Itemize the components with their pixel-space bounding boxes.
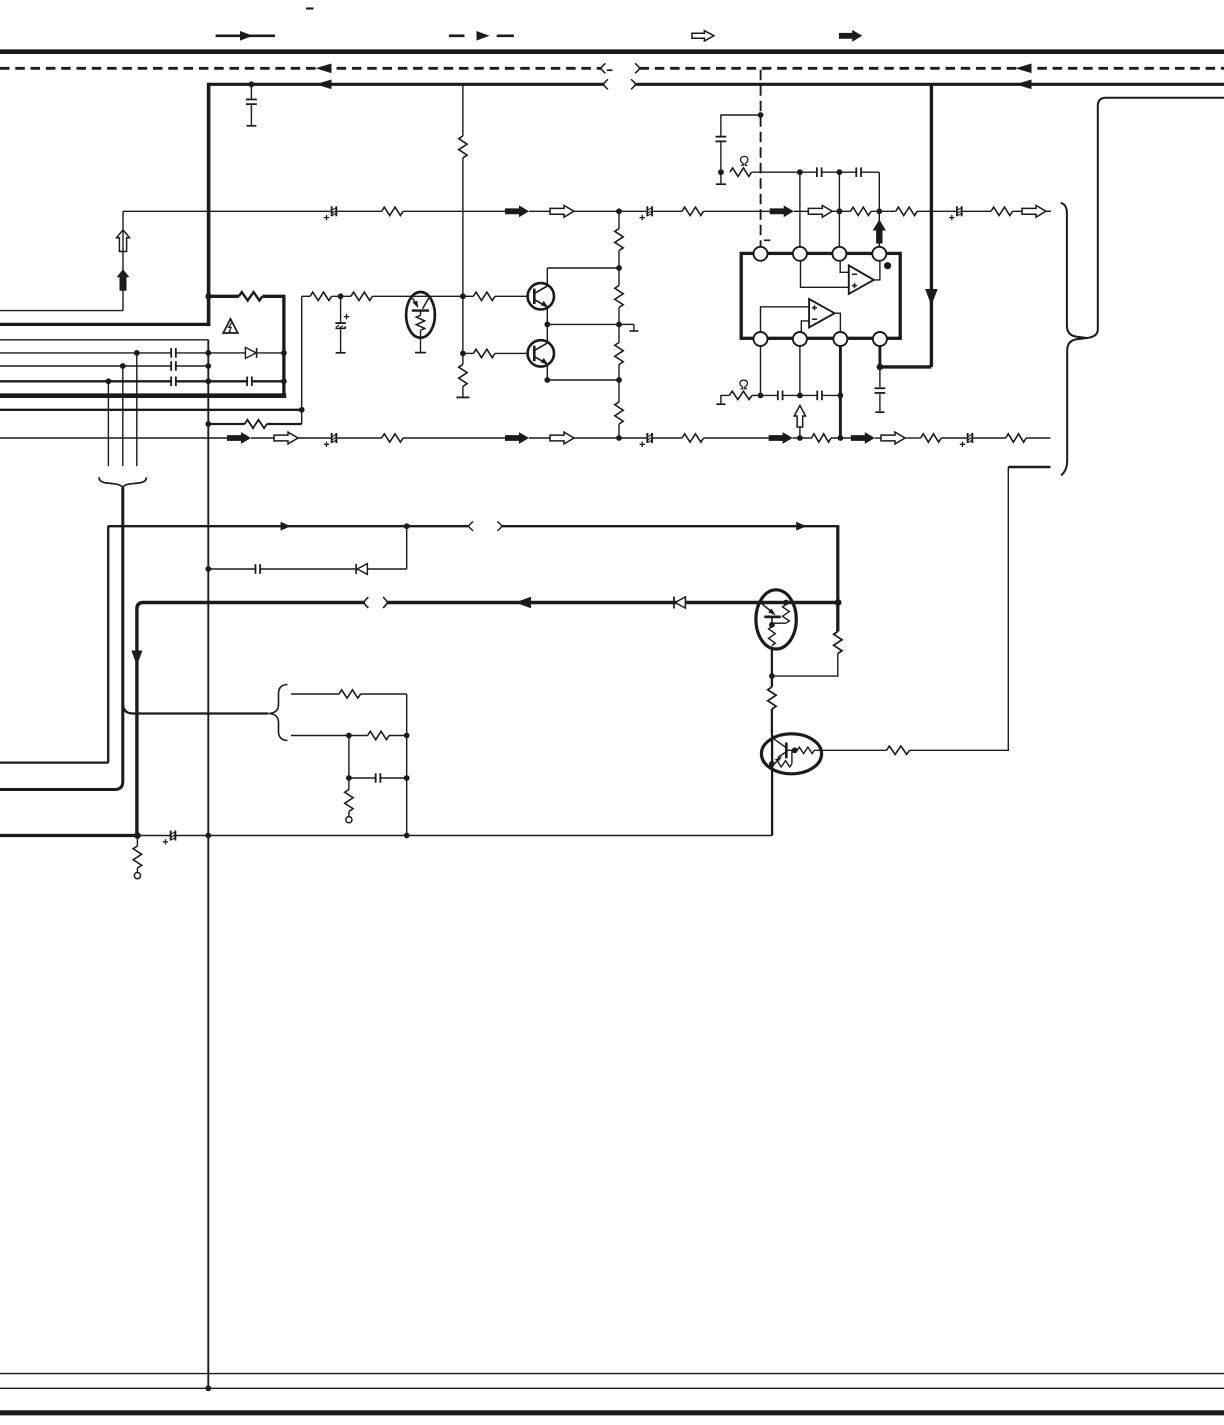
wire R25 tail [462,386,464,396]
wire row1 segment h [794,210,809,212]
node junction [876,208,882,214]
resistor R2 in box top edge [239,292,263,300]
wire box top edge [209,295,239,298]
node break mark arrow row left [469,522,473,531]
node open arrow on row2 right [881,432,905,444]
resistor R28 divider [615,343,623,365]
op-amp IC U1 box [741,253,900,338]
node IC pin circle 4 [872,247,886,261]
resistor R11 [339,690,361,698]
wire row1 segment a [123,210,331,212]
wire thick right vertical [930,84,933,367]
node junction [404,733,410,739]
node ground stub [619,323,634,325]
wire row2 segment h [653,437,682,439]
wire bundle row1 y340 [0,340,208,350]
node minus label near pin1 [764,239,770,241]
transistor Q4 body [761,734,821,774]
node open terminal [134,873,140,879]
wire mid row a [302,295,310,297]
node open arrow on row2 left [274,432,298,444]
node junction [838,393,844,399]
node legend open block arrow [692,31,714,41]
node open up arrow on pin6 lead [794,406,805,428]
wire long thin vertical [207,340,209,1389]
node junction [205,363,211,369]
wire thick left vertical [207,83,211,326]
node break mark dashed bus left [601,63,605,73]
node junction [616,435,622,441]
wire dashed return bus left segment [0,67,601,70]
wire Q4 vertical through [771,734,773,836]
node IC pin circle 8 [873,332,887,346]
resistor R16 on row1 [851,207,871,215]
wire row2 segment n [941,437,966,439]
node legend solid line arrow [216,34,275,37]
node junction [404,833,410,839]
wire pin6 lead upper [799,346,801,395]
wire mid vertical lower [462,158,464,365]
wire thick row right part [388,601,839,605]
node bundle brace [99,477,146,487]
resistor R17 on row1 [896,207,918,215]
node junction [797,435,803,441]
node junction [338,293,344,299]
wire row2 segment m [905,437,921,439]
capacitor C20 on bundle row3 [172,362,175,371]
resistor R24 on mid vertical [459,136,467,158]
node open arrow on row1 right [1022,205,1046,217]
node junction [769,673,775,679]
node junction [838,435,844,441]
wire row1 segment l [963,210,991,212]
wire Q2 emitter row [547,379,619,381]
wire row2 segment b [251,437,274,439]
wire Q3 base stub [771,617,773,625]
node open arrow on row2 [550,432,574,444]
op-amp U1a [849,265,874,294]
wire diode row [208,568,406,570]
wire row2 segment a [0,437,227,439]
node junction [460,351,466,357]
node junction [346,775,352,781]
node junction on second bus [249,81,255,87]
wire medium row y410 [0,409,302,411]
capacitor C11 polarized on row2 [969,434,972,443]
wire omega row b [783,394,816,396]
resistor R7 inside Q4 (base) [786,749,794,751]
wire row2 segment i [704,437,769,439]
wire dashed return bus right segment [640,67,1224,70]
wire block row mid [291,735,368,737]
wire second bus left segment [209,83,604,86]
wire bottom row thin segment [137,835,772,837]
transistor Q2 base bar [533,346,536,361]
resistor R20 on row2 [682,434,704,442]
wire R6 leads [771,676,773,687]
wire top right feedback [1087,98,1224,338]
wire pin4 vertical [878,211,880,247]
node junction inside Q4 [792,747,798,753]
resistor R23 on row2 [1006,434,1026,442]
wire bottom frame line 1 [0,1373,1224,1375]
wire row2 segment l [875,437,881,439]
node terminal bar [456,396,469,398]
wire row2 segment c [298,437,331,439]
wire row1 start vertical [122,211,124,310]
capacitor C12 polarized vertical [340,296,342,322]
node break mark second bus left [604,79,608,89]
resistor R26 divider [615,229,623,251]
wire row1 segment k [917,210,956,212]
node IC pin circle 7 [833,332,847,346]
node junction [404,523,410,529]
resistor R27 divider [615,286,623,308]
node break mark thick row left [364,597,368,608]
node solid arrow on row1 [505,205,529,217]
wire thick row left part [137,603,364,836]
wire row2 segment k [831,437,851,439]
wire bundle row2 y353 [0,352,284,354]
node junction on dashed vertical [758,112,764,118]
node junction [205,833,211,839]
wire bottom frame line 2 [0,1387,1224,1389]
wire U1b non-inverting input [761,307,810,332]
resistor R1 on row y424 [245,420,267,428]
node junction [205,378,211,384]
capacitor C21 on bundle row4 [172,377,175,386]
capacitor C8 polarized on row1 [958,207,961,216]
capacitor C16 [779,391,782,400]
wire U1a output [874,261,880,280]
transistor Q3 body [756,590,796,649]
wire bundle vertical a [136,353,138,466]
resistor R5 right of Q3 [834,632,842,654]
node junction [544,377,550,383]
wire row1 segment i [832,210,850,212]
node arrowhead on arrow row right [796,522,806,531]
node omega label top [741,157,748,166]
node break mark dashed bus right [635,63,639,73]
wire left stub row y310 [0,310,123,312]
wire bundle vertical b [122,366,124,466]
wire mid vertical upper [462,84,464,136]
wire arrow row left segment [0,526,469,762]
wire R5 to junction [772,654,838,677]
wire mid row b [332,295,351,297]
wire divider bottom [618,424,620,438]
node break mark second bus right [631,79,635,89]
node junction [205,566,211,572]
wire resistor row y424 [208,423,244,425]
capacitor C4 polarized on bottom row [172,831,175,840]
node junction [205,1385,211,1391]
wire pin2 vertical [799,172,801,247]
wire cap row top b [822,171,857,173]
wire row2 segment e [403,437,505,439]
resistor R6 below Q3 [768,687,776,709]
resistor R3 inside Q3 (b-e) [783,600,789,606]
wire row2 segment o [973,437,1005,439]
wire pin6 lead lower [799,427,801,438]
wire row1 segment n [1046,210,1051,212]
node junction [205,421,211,427]
resistor R31 on mid row [351,292,373,300]
node arrowhead on second bus (right) [1016,80,1032,90]
wire omega row [752,394,777,396]
node IC index dot [884,262,891,269]
resistor R9 on Q4 base line [887,746,910,754]
transistor Q1 emitter [534,300,546,307]
wire dashed vertical to pin1 [760,70,762,247]
wire row1 segment j [871,210,896,212]
capacitor C14 [818,168,821,177]
node arrowhead on thick row [515,597,531,609]
wire block row top [291,693,339,695]
node junction box top-left [205,293,211,299]
resistor R31b top omega [730,168,752,176]
wire box right edge [282,295,285,398]
wire pin7 lead [839,346,842,438]
surge arrester SA1 [406,292,435,338]
node big right brace [1061,203,1087,476]
node junction inside Q3 [769,622,775,628]
node junction on box edge [281,378,287,384]
node open arrow on row1 mid [808,205,832,217]
node down arrowhead on thick vertical right [925,289,938,306]
node junction [837,169,843,175]
capacitor C7 polarized on row1 [648,207,651,216]
wire bundle row4 y381 [0,380,284,382]
wire base row Q2 [463,352,474,354]
node omega label bottom [740,380,747,389]
transistor Q1 body [528,283,554,309]
capacitor C9 polarized on row2 [333,434,336,443]
wire omega row c [823,394,841,396]
resistor R29 divider [615,402,623,424]
node solid arrow on row2 [505,432,529,444]
node solid arrow on row2 mid [769,432,793,444]
node junction [616,265,622,271]
wire row1 segment m [1013,210,1023,212]
wire base row Q1 resistor [463,295,474,297]
node junction [758,393,764,399]
wire thick link row y367 [880,365,932,368]
wire Q3 emitter lead [771,647,773,677]
node arrowhead on arrow row [281,522,291,531]
wire row1 segment g [704,210,770,212]
wire thick vertical below junction [836,603,839,632]
node down arrowhead on thick vertical [131,651,142,666]
capacitor C19 on bundle row2 [172,348,175,357]
wire elbow branch to resistor block [123,703,268,714]
node junction [120,363,126,369]
wire row2 segment p [1026,437,1050,439]
node junction [835,599,842,606]
wire cap row top [752,171,817,173]
transistor Q4 collector diagonal [772,738,785,748]
capacitor C6 polarized on row1 [333,207,336,216]
node open arrow on row1 [550,205,574,217]
transistor Q4 emitter arrow [778,752,787,758]
node IC pin circle 6 [793,332,807,346]
node junction [299,407,305,413]
wire divider seg3 [618,308,620,343]
node junction [346,733,352,739]
wire row1 segment e [574,210,646,212]
wire riser x302 [301,296,303,424]
wire U1a non-inverting input [801,261,849,287]
transistor Q2 collector [534,343,547,350]
capacitor C13 top-left of IC [721,115,761,137]
node arrowhead on second bus (left) [316,80,332,90]
wire divider top [618,211,620,228]
wire output stub y467 [1008,466,1050,469]
node junction [205,350,211,356]
node IC pin circle 3 [832,247,846,261]
op-amp U1b [809,299,835,327]
node small brace [269,685,288,741]
node open terminal [346,817,352,823]
wire row2 segment g [574,437,646,439]
wire mid row c [372,295,463,297]
node arrowhead on dashed bus (right) [1016,64,1032,74]
node junction [134,832,141,839]
transistor Q4 base bar [785,743,788,759]
wire brace output line [0,488,123,790]
wire U1b inverting input [801,321,809,332]
wire divider seg4 [618,365,620,403]
node junction [134,350,140,356]
wire bundle vertical c [107,381,109,466]
wire bundle row3 y366 [0,365,208,367]
wire bottom row thick segment [0,834,137,837]
wire row1 segment d [529,210,550,212]
node junction [616,377,622,383]
transistor Q2 emitter [534,357,546,364]
resistor R25 on mid vertical [459,364,467,386]
resistor R15 on row1 [682,207,704,215]
node legend solid block arrow [839,30,862,42]
wire divider seg2 [618,251,620,286]
wire row2 segment j [793,437,812,439]
wire row2 segment f [529,437,550,439]
node junction [797,393,803,399]
wire Q4 base lead out [814,749,886,751]
wire row1 segment c [403,210,505,212]
wire row1 segment b [337,210,381,212]
node junction on box edge [281,350,287,356]
wire main top bus [0,49,1224,54]
diode D3 on thick row [673,597,675,609]
transistor Q3 collector diagonal [762,604,773,613]
wire C13 ground stub [720,172,722,183]
node legend dashed line arrow [449,34,465,37]
transistor Q1 base bar [533,289,536,304]
node junction [616,322,622,328]
node break mark thick row right [383,597,387,608]
resistor R22 on row2 [921,434,941,442]
resistor R13 to test point [348,778,350,790]
resistor R12 [368,731,390,739]
node junction [797,169,803,175]
wire row1 segment f [653,210,682,212]
node solid arrow on row2 left [227,432,251,444]
wire Q1 collector row [547,267,619,269]
node junction [837,208,843,214]
node legend minus tick [306,7,314,9]
resistor R32 bottom omega [721,395,730,403]
node junction [544,322,550,328]
wire block cap row [348,736,350,779]
capacitor C17 [818,391,821,400]
node junction [106,378,112,384]
node big solid up arrow to pin4 [873,220,886,244]
node junction [718,169,724,175]
capacitor C2 in protection box [248,377,251,386]
wire thick left row y324 [0,323,210,326]
resistor R19 on row2 [382,434,404,442]
wire very thick row y396 [0,393,286,398]
node junction [404,775,410,781]
capacitor C10 polarized on row2 [648,434,651,443]
diode D1 in protection box [256,348,258,358]
node junction [460,293,466,299]
node solid arrow on row1 mid [770,205,794,217]
wire second bus right segment [636,83,1224,86]
capacitor C3 on diode row [256,565,259,574]
resistor R30 on mid row [310,292,332,300]
node arrowhead on dashed bus (left) [316,64,332,74]
node IC pin circle 1 [754,247,768,261]
transistor Q2 body [528,340,554,366]
wire inter-transistor row [547,323,619,325]
resistor R14 on row1 [382,207,404,215]
capacitor C18 at pin8 [879,367,881,387]
resistor R10 to test point [136,836,138,847]
node junction [877,364,884,371]
node IC pin circle 2 [793,247,807,261]
node break mark arrow row right [497,522,501,531]
wire U1a inverting input [840,261,849,272]
capacitor C15 [857,168,860,177]
node junction inside Q4 lower [769,761,775,767]
node junction [616,208,622,214]
wire row2 segment d [337,437,381,439]
transistor Q3 base bar [764,616,780,619]
diode D2 on diode row [355,564,357,574]
node warning triangle [223,319,238,333]
wire arrow row right segment [502,525,838,527]
node open up arrow on start vertical [117,230,130,252]
wire pin8 lead [878,346,881,367]
wire pin5 lead [760,346,762,395]
node solid up arrow on start vertical [117,269,130,291]
wire Q4 base line to riser [910,467,1009,750]
wire cap row top c [861,172,879,211]
resistor R21 on row2 [812,434,832,442]
wire pin3 vertical [838,172,840,247]
node minus label at dashed bus break [607,69,613,71]
capacitor C1 from second bus [250,84,252,99]
resistor R4 inside Q3 (emitter) [769,627,776,646]
node IC pin circle 5 [754,332,768,346]
transistor Q1 collector [534,286,547,294]
node junction [837,208,843,214]
resistor R18 on row1 [991,207,1013,215]
wire U1b output [835,313,841,332]
node solid arrow on row2 right [851,432,875,444]
